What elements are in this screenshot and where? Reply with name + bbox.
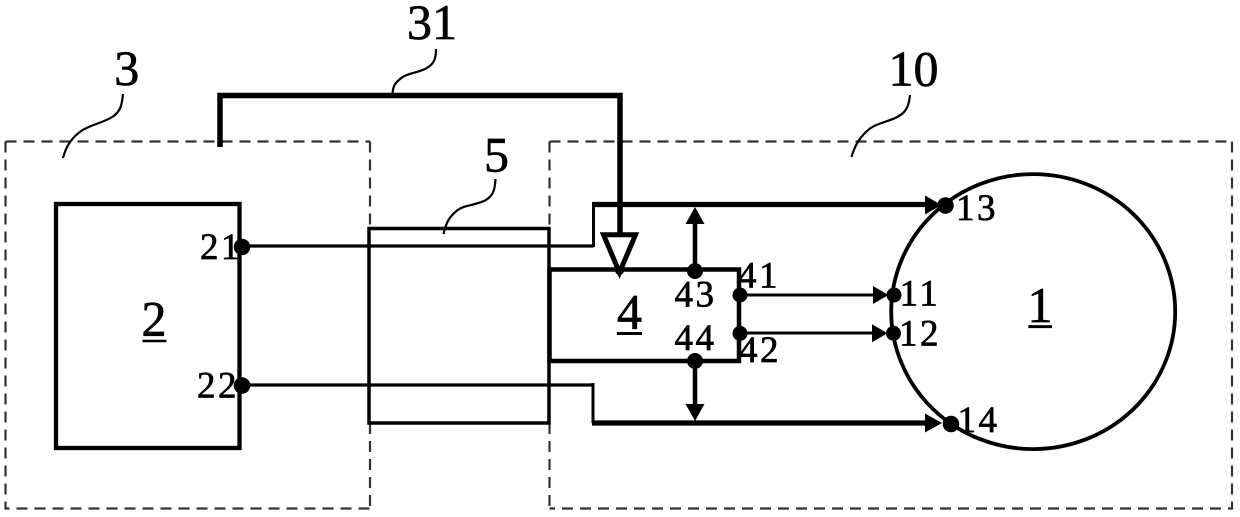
svg-text:42: 42 [739, 330, 781, 371]
wire 42 to 12 [740, 332, 873, 335]
dashed box 10 [550, 142, 1233, 509]
arrowhead 14 [925, 414, 942, 433]
wire step up to 13 [592, 205, 595, 248]
arrow 44 [693, 362, 698, 404]
svg-text:3: 3 [114, 40, 139, 96]
svg-text:14: 14 [958, 400, 1000, 441]
svg-text:5: 5 [484, 127, 509, 183]
circle 1 [891, 174, 1175, 449]
wire step down to 14 [592, 383, 595, 423]
box 2 [56, 204, 240, 448]
arrowhead 12 [872, 324, 888, 342]
thick wire to 14 [592, 420, 926, 425]
leader of 3 [63, 94, 123, 158]
svg-text:4: 4 [617, 284, 642, 340]
box 4 [550, 270, 740, 362]
svg-text:43: 43 [675, 275, 717, 316]
dashed box 3 [6, 142, 371, 509]
node 13 [937, 197, 954, 214]
node 11 [887, 288, 902, 303]
svg-text:1: 1 [1028, 277, 1053, 333]
svg-text:2: 2 [142, 291, 167, 347]
node 43 [687, 263, 703, 279]
svg-text:41: 41 [738, 256, 780, 297]
leader of 5 [444, 179, 496, 234]
node 41 [733, 288, 748, 303]
leader of 31 [393, 49, 437, 94]
svg-text:21: 21 [200, 227, 242, 268]
arrowhead 11 [873, 286, 889, 304]
svg-text:10: 10 [889, 41, 939, 97]
underline of 4 [617, 332, 642, 335]
underline of 1 [1028, 325, 1052, 328]
node 21 [234, 239, 251, 256]
box 5 [369, 229, 549, 424]
node 44 [687, 353, 703, 369]
arrow 43 [693, 222, 698, 268]
svg-text:12: 12 [899, 313, 941, 354]
wire 22 [239, 383, 594, 386]
node 14 [943, 416, 960, 433]
wire 41 to 11 [740, 294, 874, 297]
node 22 [234, 377, 251, 394]
node 42 [733, 326, 748, 341]
svg-text:44: 44 [675, 318, 717, 359]
open arrow of wire 31 [604, 235, 636, 273]
wire 21 [239, 244, 594, 247]
arrowhead 13 [925, 196, 942, 215]
wire 31 [220, 96, 620, 236]
svg-text:22: 22 [197, 365, 239, 406]
underline of 2 [142, 340, 166, 343]
thick wire to 13 [592, 202, 926, 207]
svg-text:13: 13 [956, 188, 998, 229]
svg-text:11: 11 [900, 274, 941, 315]
node 12 [886, 326, 901, 341]
svg-text:31: 31 [407, 0, 457, 50]
leader of 10 [852, 95, 911, 157]
